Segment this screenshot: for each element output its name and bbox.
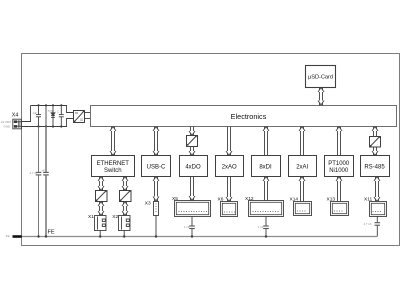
svg-text:24 VDC: 24 VDC (1, 120, 12, 124)
svg-text:1 nF: 1 nF (258, 225, 264, 229)
arrow transformer T2 to X2 (122, 202, 128, 216)
wire bottom rail (21, 119, 73, 127)
FE net line (22, 236, 378, 238)
svg-text:Ni1000: Ni1000 (329, 168, 349, 174)
arrow 4xDO to X5 (189, 177, 195, 201)
electronics box (91, 106, 397, 127)
svg-text:1µF: 1µF (33, 111, 38, 115)
svg-text:PT1000: PT1000 (328, 161, 350, 167)
svg-text:RS-485: RS-485 (364, 165, 385, 171)
arrow 8xDI to electronics (263, 127, 269, 156)
arrow X13 to PT1000 (336, 177, 342, 202)
wire X2 to FE (123, 231, 125, 237)
wire X4 top pin to top rail (21, 106, 30, 122)
svg-text:FE: FE (48, 230, 55, 236)
connector X1 (95, 216, 107, 231)
Y-capacitor CY2 line to FE (43, 127, 49, 237)
arrow 2xAI to electronics (299, 127, 305, 156)
arrow electronics to usb-c (153, 127, 159, 156)
connector X2 (119, 216, 131, 231)
wire X1 to FE (99, 231, 101, 237)
capacitor X11 shield to FE (375, 216, 381, 237)
wire branch node 2 (45, 106, 47, 127)
capacitor C2 branch (59, 106, 64, 127)
svg-text:2xAO: 2xAO (222, 165, 237, 171)
connector X13 (331, 202, 349, 216)
svg-text:X2: X2 (112, 214, 118, 220)
svg-text:Electronics: Electronics (231, 112, 267, 121)
2xAO box (216, 156, 244, 177)
junction dots top rail (37, 104, 62, 106)
arrow 2xAO to X6 (226, 177, 232, 202)
connector X11 (370, 202, 387, 217)
wire top rail (31, 106, 74, 113)
transformer T2 (120, 190, 132, 201)
connector X14 (294, 202, 312, 216)
Y-capacitor CY1 line to FE (36, 127, 42, 237)
svg-text:µSD-Card: µSD-Card (308, 75, 333, 81)
svg-text:X4: X4 (12, 112, 19, 118)
arrow electronics to 2xAO (226, 127, 232, 156)
svg-text:USB-C: USB-C (147, 165, 166, 171)
connector X6 (221, 202, 238, 217)
arrow electronics to isolator 4xDO (189, 127, 195, 136)
junction dots bottom rail (37, 125, 62, 127)
svg-text:8xDI: 8xDI (259, 165, 272, 171)
arrow isolator to RS-485 (372, 147, 378, 156)
svg-text:X3: X3 (145, 201, 151, 207)
svg-text:TVS: TVS (48, 109, 53, 113)
arrow ethernet switch to transformer T2 (122, 177, 128, 191)
ethernet switch box (92, 156, 135, 177)
wire X3 to FE (155, 216, 157, 237)
svg-text:Switch: Switch (104, 168, 122, 174)
uSD-Card box (306, 66, 336, 88)
isolator above RS-485 (370, 136, 381, 147)
arrow usb-c to X3 (153, 177, 159, 202)
arrow X12 to 8xDI (263, 177, 269, 201)
connector X4 (13, 119, 22, 129)
2xAI box (289, 156, 317, 177)
connector X3 (154, 202, 159, 216)
U1 dc marks (75, 113, 83, 121)
svg-text:GND: GND (4, 124, 12, 128)
arrow uSD to electronics (318, 88, 324, 106)
arrow X14 to 2xAI (299, 177, 305, 202)
svg-text:1 nF: 1 nF (184, 225, 190, 229)
connector X5 (175, 201, 211, 217)
svg-text:2xAI: 2xAI (296, 165, 308, 171)
FE terminal bar (13, 235, 22, 238)
svg-text:FE: FE (6, 234, 10, 238)
isolator above 4xDO (187, 136, 198, 147)
arrow PT1000 to electronics (336, 127, 342, 156)
4xDO box (180, 156, 208, 177)
PT1000 Ni1000 box (325, 156, 354, 177)
capacitor X5 shield to FE (189, 216, 195, 237)
wires U1 to electronics (85, 113, 91, 119)
arrow isolator to 4xDO (189, 146, 195, 156)
arrow RS-485 isolator to electronics (372, 127, 378, 137)
svg-text:X1: X1 (88, 214, 94, 220)
capacitor X12 shield to FE (263, 217, 269, 237)
svg-text:4.7 nF: 4.7 nF (364, 222, 372, 226)
usb-c box (142, 156, 171, 177)
svg-text:nF: nF (42, 169, 46, 173)
arrow RS-485 to X11 (374, 177, 380, 202)
dc-dc converter U1 (74, 111, 85, 123)
svg-text:4.7 nF: 4.7 nF (30, 171, 38, 175)
junction dots FE line (37, 235, 267, 237)
8xDI box (252, 156, 281, 177)
connector X12 (249, 201, 284, 217)
capacitor C1 branch (36, 106, 41, 127)
transformer T1 (96, 190, 108, 201)
arrow ethernet switch to transformer T1 (98, 177, 104, 191)
TVS diode D1 branch (51, 106, 55, 127)
arrow electronics to ethernet switch (110, 127, 116, 156)
arrow transformer T1 to X1 (98, 202, 104, 216)
svg-text:4xDO: 4xDO (185, 165, 201, 171)
svg-text:C: C (57, 110, 59, 114)
device enclosure frame (22, 54, 400, 246)
svg-text:ETHERNET: ETHERNET (97, 161, 130, 167)
RS-485 box (361, 156, 390, 177)
